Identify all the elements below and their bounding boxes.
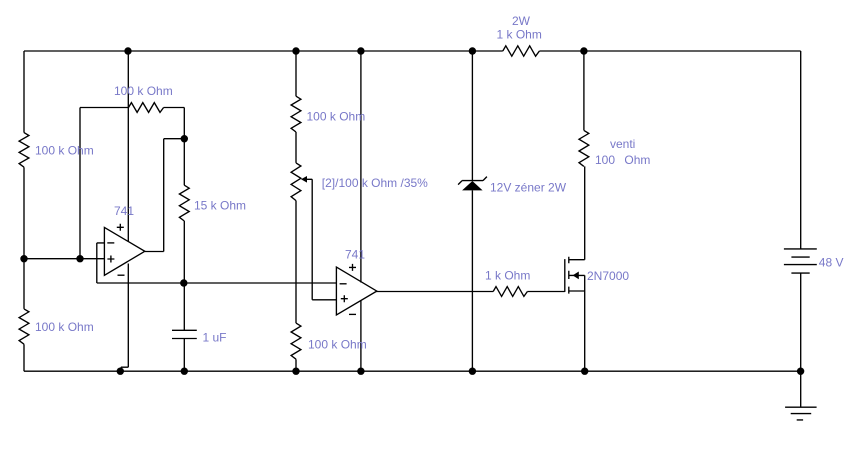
svg-text:venti: venti xyxy=(610,137,635,151)
svg-text:100 k Ohm: 100 k Ohm xyxy=(307,110,366,124)
svg-text:100 k Ohm: 100 k Ohm xyxy=(35,144,94,158)
svg-text:2N7000: 2N7000 xyxy=(587,269,629,283)
svg-text:12V zéner 2W: 12V zéner 2W xyxy=(490,181,567,195)
svg-text:741: 741 xyxy=(345,247,365,261)
svg-text:100 Ohm: 100 Ohm xyxy=(595,153,650,167)
svg-text:100 k Ohm: 100 k Ohm xyxy=(308,338,367,352)
svg-text:48 V: 48 V xyxy=(819,256,844,270)
svg-text:1 uF: 1 uF xyxy=(203,331,227,345)
svg-text:100 k Ohm: 100 k Ohm xyxy=(35,320,94,334)
svg-text:741: 741 xyxy=(114,204,134,218)
svg-text:2W: 2W xyxy=(512,14,531,28)
svg-text:100 k Ohm: 100 k Ohm xyxy=(114,84,173,98)
svg-text:[2]/100 k Ohm /35%: [2]/100 k Ohm /35% xyxy=(322,176,428,190)
svg-text:1 k Ohm: 1 k Ohm xyxy=(497,28,542,42)
svg-text:15 k Ohm: 15 k Ohm xyxy=(194,198,246,212)
svg-text:1 k Ohm: 1 k Ohm xyxy=(485,269,530,283)
